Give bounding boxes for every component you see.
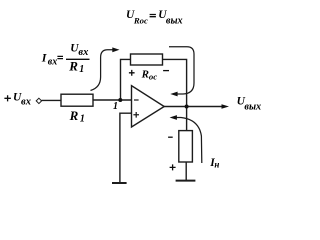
load resistor (vertical) — [179, 131, 193, 162]
svg-text:1: 1 — [80, 114, 85, 125]
label plus (load bottom) — [170, 164, 176, 170]
wire input from terminal to R1 — [42, 99, 62, 101]
wire feedback right from Roc to output node — [163, 59, 187, 106]
ground (left) — [112, 182, 127, 184]
svg-text:н: н — [214, 160, 219, 170]
resistor Roc (feedback) — [131, 54, 163, 65]
svg-text:R: R — [69, 108, 79, 123]
op-amp triangle — [132, 86, 165, 127]
label formula U_Roc = U_vyh (top) — [126, 9, 183, 27]
wire noninverting input to ground — [120, 113, 132, 182]
svg-text:вх: вх — [48, 56, 57, 67]
svg-text:вых: вых — [244, 102, 261, 113]
svg-text:1: 1 — [79, 64, 84, 75]
svg-text:R: R — [68, 58, 78, 73]
op-amp minus mark — [134, 99, 139, 101]
curved arrow: input current direction — [91, 50, 113, 91]
svg-text:1: 1 — [113, 101, 118, 112]
curved arrow: load current direction — [177, 118, 202, 164]
svg-text:Roc: Roc — [133, 16, 148, 26]
svg-text:oc: oc — [149, 72, 157, 82]
label formula I_vx = U_vx / R1 — [41, 43, 90, 76]
svg-text:вх: вх — [78, 47, 88, 58]
wire output node to load resistor — [186, 107, 188, 131]
wire R1 to op-amp inverting input through node 1 — [93, 99, 132, 101]
svg-text:вх: вх — [21, 97, 31, 108]
svg-text:вых: вых — [166, 16, 183, 27]
wire feedback left vertical — [121, 59, 131, 100]
svg-text:I: I — [41, 50, 48, 64]
resistor R1 — [61, 94, 93, 106]
output arrowhead — [222, 104, 230, 109]
ground (right) — [176, 180, 196, 182]
wire load resistor to ground — [185, 162, 187, 180]
node 1 junction dot — [118, 98, 122, 102]
input terminal diamond — [36, 98, 41, 103]
label +Uvx (input) — [4, 95, 10, 101]
label minus (load top) — [168, 136, 173, 138]
label + Roc - (under feedback resistor) — [129, 70, 135, 76]
output node junction dot — [185, 105, 189, 109]
op-amp plus mark — [133, 112, 139, 118]
wire output — [164, 106, 223, 108]
curved arrow: feedback current direction — [169, 47, 194, 94]
svg-text:R: R — [141, 69, 149, 81]
